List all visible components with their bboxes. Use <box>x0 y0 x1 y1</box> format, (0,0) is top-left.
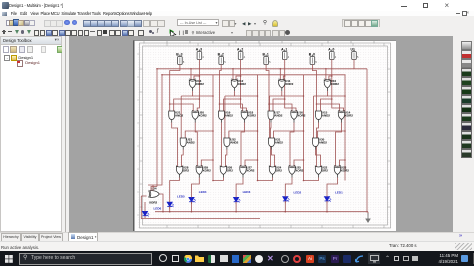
wire U34 in <box>141 195 146 197</box>
gate U34 <box>149 187 160 205</box>
wire B2 to AND2 row2 <box>220 65 222 112</box>
wire AND2 out to OR col4 <box>317 123 319 167</box>
wire bus to U34 input <box>151 187 157 191</box>
wire right vertical to ground <box>366 69 368 213</box>
resistor A_3 <box>196 48 205 60</box>
wire XOR1 out col2 <box>225 91 235 96</box>
XOR gate U29 (row4) <box>196 165 211 177</box>
wire to AND3 col1 <box>180 96 182 139</box>
wire XOR1 out to carry vert col2 <box>235 95 258 97</box>
wire A2 to row2 XOR <box>241 99 247 112</box>
right instrument toolbar <box>453 36 474 232</box>
toolbar row 2 <box>0 27 474 37</box>
ground <box>365 213 371 223</box>
AND gate U31 (row3) <box>269 137 284 149</box>
status resize grip <box>455 243 472 250</box>
wire AND3 out to OR col1 <box>182 150 184 167</box>
wire to AND3 col3 <box>269 96 271 139</box>
wire junction dots <box>156 68 346 213</box>
wire XOR1 out col3 <box>270 91 282 96</box>
wire A2 down to row2 AND <box>224 76 241 112</box>
wire B3 to AND2 row2 <box>170 65 180 112</box>
sheet grid <box>133 40 396 231</box>
LED LED4 <box>189 190 207 204</box>
OR gate U22 (row4) <box>315 165 328 177</box>
svg-text:A_2: A_2 <box>237 48 243 52</box>
wire sum0 to LED1 <box>327 178 338 195</box>
wire carry to XOR4 col2 <box>245 160 258 167</box>
panel toolbar icons <box>3 46 9 53</box>
wire LED5 to bottom rail <box>169 206 171 211</box>
wire sum1 to LED2 <box>285 178 292 195</box>
AND gate U32 (row3) <box>224 137 239 149</box>
svg-text:B_0: B_0 <box>309 53 315 57</box>
XOR gate U12 (row1) <box>231 79 246 91</box>
wire sum3 to LED4 <box>192 178 200 196</box>
wire XOR2 out to XOR4 col4 <box>336 123 342 167</box>
resistor B_2 <box>218 53 227 65</box>
svg-text:U34: U34 <box>151 187 157 191</box>
resistor B_3 <box>176 53 185 65</box>
wire bus tap to XOR1 col1 <box>190 69 192 80</box>
LED LED2 <box>283 191 302 204</box>
OR gate U24 (row4) <box>269 165 282 177</box>
toolbar overflow chevron <box>459 233 462 239</box>
AND gate U30 (row3) <box>313 137 328 149</box>
wire carry vertical col2 <box>257 75 259 181</box>
resistor U1 <box>351 48 360 60</box>
wire OR out col2 carry <box>213 178 223 181</box>
wire AND3 out to OR col4 <box>316 150 321 167</box>
AND gate U17 (row2) <box>268 110 283 122</box>
wire A2 to XOR1 <box>236 60 241 81</box>
LED LED6 <box>143 207 162 218</box>
wire bottom rail <box>155 211 368 213</box>
svg-text:LED2: LED2 <box>294 191 302 195</box>
wire LED3 to bottom rail <box>235 202 237 212</box>
wire A0 down to row2 AND <box>321 76 332 112</box>
wire bus2 to U34 input2 <box>148 182 162 191</box>
wire XOR1 out to carry vert col3 <box>282 95 304 97</box>
wire LED2 to bottom rail <box>284 201 286 212</box>
menu bar <box>0 11 474 16</box>
tray <box>385 255 390 262</box>
wire LED4 to bottom rail <box>191 202 193 212</box>
taskbar <box>0 251 474 266</box>
wire sum2 to LED3 <box>236 178 243 196</box>
start <box>5 255 13 263</box>
svg-text:U24OR2: U24OR2 <box>276 165 283 172</box>
wire carry to XOR4 col3 <box>294 160 304 167</box>
XOR gate U16 (row2) <box>291 110 306 122</box>
wire B1 to AND2 row2 <box>266 65 269 112</box>
XOR gate U18 (row2) <box>241 110 256 122</box>
wire A1 to XOR1 <box>283 60 284 81</box>
svg-text:LED6: LED6 <box>154 207 162 211</box>
wire A1 down to row2 AND <box>273 76 285 112</box>
svg-text:B_2: B_2 <box>218 53 224 57</box>
wire branch to XOR2 row2 col2 <box>220 104 243 112</box>
svg-text:U1: U1 <box>351 48 355 52</box>
wire A0 to row2 XOR <box>332 99 344 112</box>
wire A1 to row2 XOR <box>285 99 296 112</box>
wire ground stub <box>367 212 369 216</box>
svg-text:LED4: LED4 <box>199 190 207 194</box>
wire left vertical to U34 <box>156 69 158 187</box>
wire to AND3 col4 <box>313 96 315 139</box>
LED LED3 <box>234 190 251 204</box>
resistor A_2 <box>237 48 246 60</box>
window controls <box>401 6 407 7</box>
OR gate U28 (row4) <box>176 165 189 177</box>
wire SUB bus top <box>157 68 367 70</box>
wire U1 lead <box>353 60 355 69</box>
wire bus tap to XOR1 col4 <box>325 69 327 80</box>
svg-text:LED5: LED5 <box>177 195 185 199</box>
svg-text:B_1: B_1 <box>263 53 269 57</box>
wire carry to XOR4 col1 <box>201 160 213 167</box>
wire branch to XOR2 row2 col3 <box>269 104 292 112</box>
AND gate U33 (row3) <box>180 137 195 149</box>
resistor B_0 <box>309 53 318 65</box>
wire lower rail 2 <box>141 196 260 219</box>
wire carry to AND3 col4 <box>318 131 346 139</box>
page border frame <box>140 43 391 228</box>
XOR gate U25 (row4) <box>289 165 304 177</box>
wire AND2 out to OR col3 <box>270 123 273 167</box>
design toolbox panel <box>0 36 62 232</box>
svg-text:LED1: LED1 <box>335 191 343 195</box>
wire left vertical 2 <box>161 75 163 182</box>
XOR gate U27 (row4) <box>240 165 255 177</box>
XOR gate U13 (row1) <box>189 79 204 91</box>
wire LED1 to bottom rail <box>326 201 328 212</box>
wire to LED6 <box>144 202 146 209</box>
XOR gate U23 (row4) <box>334 165 349 177</box>
title bar <box>0 0 474 11</box>
wire A0 to XOR1 <box>329 60 332 81</box>
AND gate U15 (row2) <box>316 110 331 122</box>
svg-text:U22OR2: U22OR2 <box>322 165 329 172</box>
svg-text:A_0: A_0 <box>328 48 334 52</box>
svg-text:A_3: A_3 <box>196 48 202 52</box>
resistor A_1 <box>281 48 290 60</box>
wire U34 output <box>159 194 163 212</box>
tab bar <box>0 232 474 242</box>
wire carry to LED5 <box>170 181 180 200</box>
wire XOR1 out col4 <box>314 91 328 96</box>
wire XOR2 out to XOR4 col1 <box>195 123 197 167</box>
wire OR out col4 carry <box>304 178 319 181</box>
svg-text:B_3: B_3 <box>176 53 182 57</box>
wire branch to XOR2 row2 col4 <box>317 104 340 112</box>
wire bus tap to XOR1 col3 <box>279 69 281 80</box>
LED LED1 <box>325 191 344 204</box>
svg-text:XOR2: XOR2 <box>149 200 158 204</box>
wire XOR1 out to carry vert col1 <box>193 95 214 97</box>
wire to AND3 col2 <box>224 96 226 139</box>
wire carry vertical col1 <box>212 75 214 181</box>
schematic SVG <box>133 40 396 231</box>
wire AND2 out to OR col2 <box>220 123 222 167</box>
wire carry vertical col3 <box>303 75 305 181</box>
wire branch to XOR2 row2 col1 <box>170 104 194 112</box>
wire A3 down to row2 AND <box>174 76 200 112</box>
wire OR out col3 carry <box>258 178 273 181</box>
wire bus 2 <box>162 74 346 76</box>
resistor B_1 <box>263 53 272 65</box>
OR gate U26 (row4) <box>220 165 233 177</box>
wire carry to AND3 col2 <box>229 131 258 139</box>
MDI background <box>69 36 453 232</box>
window left border <box>133 40 135 231</box>
wire OR out col1 <box>179 178 181 181</box>
wire B0 to AND2 row2 <box>312 65 316 112</box>
wire carry to AND3 col1 <box>185 131 213 139</box>
wire XOR1 out to carry vert col4 <box>327 95 345 97</box>
XOR gate U11 (row1) <box>279 79 294 91</box>
wire carry to AND3 col3 <box>274 131 304 139</box>
wire XOR2 out to XOR4 col2 <box>241 123 244 167</box>
wire AND2 out to OR col1 <box>172 123 178 167</box>
XOR gate U20 (row2) <box>192 110 207 122</box>
top ruler ticks <box>144 41 374 44</box>
wire AND3 out to OR col3 <box>272 150 275 167</box>
wire AND3 out to OR col2 <box>225 150 227 167</box>
wire bus tap to XOR1 col2 <box>232 69 234 80</box>
AND gate U21 (row2) <box>169 110 184 122</box>
wire A3 to row2 XOR <box>197 99 199 112</box>
wire carry to XOR4 col4 <box>340 160 346 167</box>
child window controls <box>456 12 460 15</box>
wire carry vertical col4 <box>344 75 346 181</box>
canvas sheet window <box>133 40 396 231</box>
resistor A_0 <box>328 48 337 60</box>
AND gate U19 (row2) <box>219 110 234 122</box>
search box <box>19 253 152 265</box>
svg-text:A_1: A_1 <box>281 48 287 52</box>
status bar <box>0 241 474 252</box>
LED LED5 <box>167 195 185 209</box>
svg-text:LED3: LED3 <box>243 190 251 194</box>
XOR gate U10 (row1) <box>324 79 339 91</box>
wire XOR2 out to XOR4 col3 <box>290 123 294 167</box>
wire XOR1 out col1 <box>181 91 192 96</box>
tray icons <box>159 254 167 262</box>
toolbar row 1 <box>0 16 474 27</box>
border tick marks <box>137 43 390 228</box>
splitter <box>62 36 69 232</box>
XOR gate U14 (row2) <box>338 110 353 122</box>
tree <box>4 55 10 61</box>
wire A3 to XOR1 <box>194 60 199 81</box>
